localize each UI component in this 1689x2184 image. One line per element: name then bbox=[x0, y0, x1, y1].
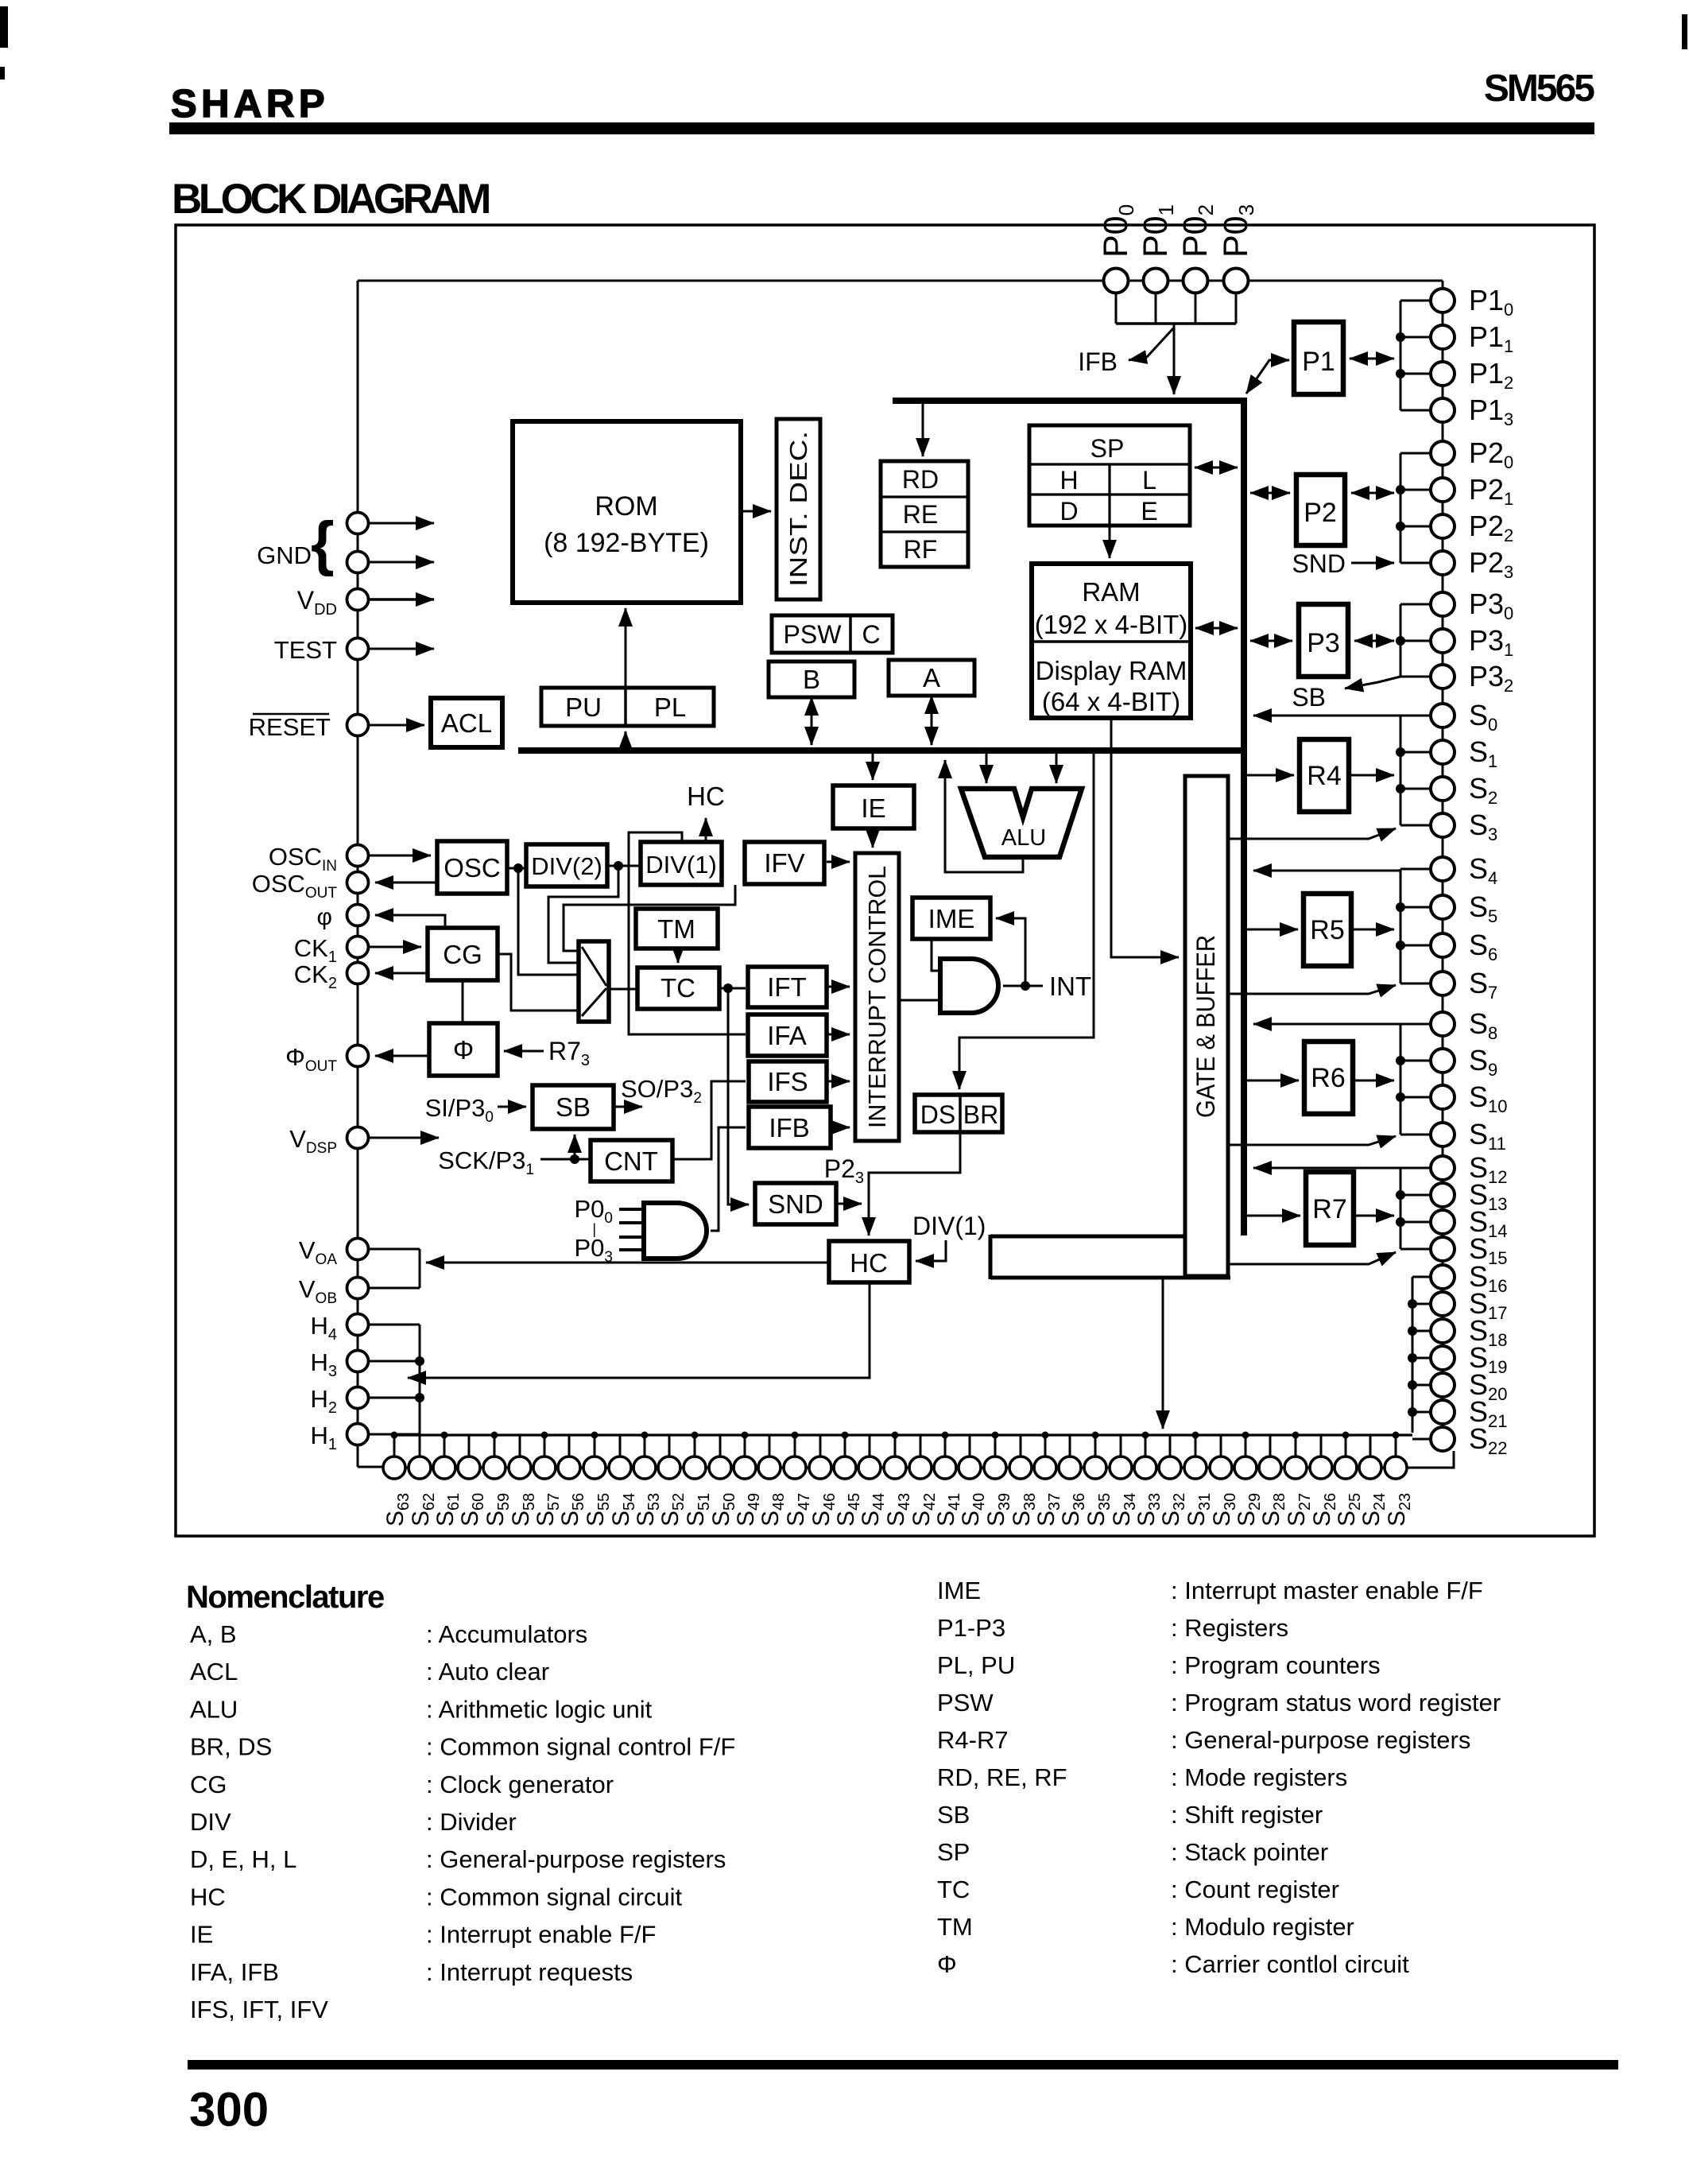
wire H2 stub bbox=[368, 1397, 420, 1399]
svg-text:PU: PU bbox=[565, 692, 602, 722]
wire SP to bus bbox=[1195, 467, 1238, 469]
svg-text:PL: PL bbox=[654, 692, 686, 722]
svg-text:TC: TC bbox=[660, 973, 695, 1003]
bus right thick vertical bbox=[1241, 398, 1247, 1236]
wire OSCin to OSC bbox=[369, 855, 431, 857]
pin P12 bbox=[1431, 362, 1455, 386]
wire P0 bar to IFB bbox=[1129, 328, 1174, 360]
svg-text:: Registers: : Registers bbox=[1171, 1614, 1288, 1642]
block CNT bbox=[591, 1140, 672, 1181]
pin VOB bbox=[347, 1278, 369, 1299]
wire VDD arrow bbox=[369, 598, 434, 601]
selector mux diag2 bbox=[582, 988, 606, 1016]
pin CK1 bbox=[347, 937, 369, 958]
wire INT gate out bbox=[1003, 985, 1043, 987]
svg-text:R6: R6 bbox=[1311, 1063, 1345, 1093]
pin S33 bbox=[1134, 1457, 1156, 1479]
wire stub S44 bbox=[869, 1435, 871, 1457]
wire stub S51 bbox=[694, 1435, 696, 1457]
junction P3 806 bbox=[1396, 636, 1405, 646]
wire SCK up to SB bbox=[574, 1135, 576, 1159]
register B bbox=[769, 661, 854, 697]
wire SP to RAM arrow bbox=[1109, 526, 1111, 558]
wire IF to IC y1301 bbox=[827, 1034, 850, 1036]
wire stub S40 bbox=[969, 1435, 971, 1457]
wire P0 gate input 0 bbox=[619, 1208, 644, 1211]
register R7 bbox=[1306, 1172, 1354, 1245]
pin S7 bbox=[1431, 972, 1455, 995]
wire stub S0_3 900 bbox=[1400, 715, 1431, 717]
wire bus to R5 bbox=[1247, 929, 1298, 931]
wire A to bus bbox=[931, 696, 933, 745]
pin S51 bbox=[684, 1457, 706, 1479]
wire stub S52 bbox=[668, 1435, 671, 1457]
wire GND2 arrow bbox=[369, 561, 434, 564]
wire stub S4_7 1093 bbox=[1400, 868, 1431, 871]
pin RESET bbox=[347, 715, 369, 736]
wire stub S58 bbox=[519, 1435, 521, 1457]
wire stub P3 760 bbox=[1400, 603, 1431, 606]
block IME bbox=[912, 898, 990, 939]
wire IC to INT gate bbox=[899, 999, 940, 1002]
pin S32 bbox=[1159, 1457, 1181, 1479]
register A bbox=[889, 660, 974, 696]
wire stub S54 bbox=[619, 1435, 622, 1457]
pin S42 bbox=[909, 1457, 932, 1479]
pin VDD bbox=[347, 589, 369, 611]
wire PHIout from PHI box bbox=[375, 1055, 429, 1057]
junction S16_22 1640 bbox=[1408, 1299, 1417, 1309]
svg-text:H: H bbox=[1059, 466, 1078, 495]
wire H3 stub bbox=[368, 1360, 420, 1363]
svg-text:L: L bbox=[1142, 466, 1156, 495]
divider DS/BR bbox=[959, 1095, 962, 1132]
svg-text:CG: CG bbox=[443, 940, 482, 969]
pin S19 bbox=[1431, 1346, 1455, 1370]
pin S46 bbox=[809, 1457, 831, 1479]
svg-text:: Interrupt requests: : Interrupt requests bbox=[426, 1958, 633, 1986]
pin OSCOUT bbox=[347, 872, 369, 894]
wire gate-buffer out y1055 bbox=[1228, 828, 1396, 839]
svg-text:GND: GND bbox=[257, 541, 312, 569]
wire stub P1 424 bbox=[1400, 336, 1431, 339]
wire stub S16_22 1606 bbox=[1412, 1276, 1431, 1278]
mode register table RD RE RF bbox=[881, 461, 968, 567]
header rule bbox=[169, 122, 1594, 134]
wire stub S16_22 1742 bbox=[1412, 1384, 1431, 1387]
svg-text:: Clock generator: : Clock generator bbox=[426, 1771, 614, 1798]
svg-text:SI/P30: SI/P30 bbox=[425, 1094, 494, 1126]
wire bracket S0_3 bbox=[1400, 716, 1402, 825]
pin S62 bbox=[409, 1457, 431, 1479]
pin S34 bbox=[1110, 1457, 1132, 1479]
divider RE/RF bbox=[881, 530, 968, 533]
pin S59 bbox=[483, 1457, 506, 1479]
svg-text:OSC: OSC bbox=[444, 853, 501, 883]
svg-text:: Common signal circuit: : Common signal circuit bbox=[426, 1883, 683, 1911]
svg-text:RD, RE, RF: RD, RE, RF bbox=[937, 1763, 1067, 1791]
wire R4 to pins bbox=[1349, 774, 1394, 777]
pin P32 bbox=[1431, 665, 1455, 689]
divider HL/DE bbox=[1029, 493, 1190, 495]
block SB bbox=[533, 1085, 614, 1129]
pin H1 bbox=[347, 1424, 369, 1445]
divider RAM/DisplayRAM bbox=[1032, 640, 1191, 643]
svg-text:SND: SND bbox=[768, 1189, 823, 1219]
junction P2 662 bbox=[1396, 522, 1405, 531]
svg-text:SO/P32: SO/P32 bbox=[621, 1075, 702, 1107]
wire stub S0_3 992 bbox=[1400, 788, 1431, 790]
svg-text:ACL: ACL bbox=[441, 708, 492, 738]
svg-text:Φ: Φ bbox=[937, 1950, 957, 1978]
svg-text:DIV(1): DIV(1) bbox=[645, 851, 717, 879]
pin S55 bbox=[583, 1457, 606, 1479]
junction S57 bbox=[541, 1432, 548, 1439]
pin P11 bbox=[1431, 325, 1455, 349]
wire P02 stub bbox=[1195, 293, 1197, 324]
wire bus to P2 bbox=[1250, 492, 1290, 495]
wire stub S39 bbox=[994, 1435, 997, 1457]
svg-text:IME: IME bbox=[937, 1577, 981, 1604]
svg-text:: Carrier contlol circuit: : Carrier contlol circuit bbox=[1171, 1950, 1409, 1978]
pin S41 bbox=[934, 1457, 956, 1479]
svg-text:: Interrupt enable F/F: : Interrupt enable F/F bbox=[426, 1921, 656, 1949]
wire stub S59 bbox=[494, 1435, 496, 1457]
junction S29 bbox=[1242, 1432, 1249, 1439]
wire DIV1 label to HC bbox=[916, 1240, 946, 1261]
pin P30 bbox=[1431, 592, 1455, 616]
wire R5 to pins bbox=[1351, 929, 1394, 931]
wire pins return to bus y900 bbox=[1253, 715, 1400, 717]
wire P3 to pins bbox=[1354, 640, 1394, 642]
pin P10 bbox=[1431, 289, 1455, 312]
pin S31 bbox=[1184, 1457, 1207, 1479]
pin S1 bbox=[1431, 740, 1455, 764]
junction S16_22 1674 bbox=[1408, 1326, 1417, 1336]
junction H3 bbox=[415, 1356, 424, 1366]
wire stub S0_3 1038 bbox=[1400, 824, 1431, 827]
junction TC out bbox=[723, 983, 733, 993]
svg-text:HC: HC bbox=[687, 782, 725, 811]
svg-text:: Mode registers: : Mode registers bbox=[1171, 1763, 1347, 1791]
pin S28 bbox=[1259, 1457, 1281, 1479]
svg-text:300: 300 bbox=[189, 2083, 269, 2136]
pin S4 bbox=[1431, 857, 1455, 881]
block INTERRUPT CONTROL bbox=[855, 853, 899, 1141]
pin S35 bbox=[1084, 1457, 1106, 1479]
pin P00 bbox=[1104, 269, 1129, 293]
wire stub S45 bbox=[844, 1435, 846, 1457]
svg-text:IE: IE bbox=[190, 1921, 213, 1949]
wire stub S60 bbox=[468, 1435, 471, 1457]
wire IME to INT gate bbox=[932, 939, 940, 971]
pin S50 bbox=[709, 1457, 731, 1479]
junction S0_3 992 bbox=[1396, 784, 1405, 793]
svg-text:INT: INT bbox=[1049, 972, 1091, 1001]
wire bracket P3 bbox=[1400, 604, 1402, 677]
junction SCK bbox=[570, 1154, 579, 1164]
block RAM bbox=[1032, 564, 1191, 718]
junction S55 bbox=[591, 1432, 599, 1439]
svg-text:IFA: IFA bbox=[767, 1021, 807, 1050]
wire OSC to DIV2 bbox=[507, 867, 526, 870]
junction S8_11 1334 bbox=[1396, 1056, 1405, 1065]
wire stub S61 bbox=[444, 1435, 446, 1457]
svg-text:ACL: ACL bbox=[190, 1658, 238, 1686]
wire stub S42 bbox=[920, 1435, 922, 1457]
svg-text:IE: IE bbox=[861, 793, 885, 823]
svg-text:TM: TM bbox=[657, 914, 695, 944]
svg-text:PSW: PSW bbox=[937, 1689, 994, 1717]
wire TC to IFT bbox=[719, 987, 746, 990]
wire P1 to pins bbox=[1350, 358, 1394, 360]
wire bus corner to P1 bbox=[1246, 360, 1289, 394]
svg-text:HC: HC bbox=[190, 1883, 226, 1911]
wire stub S30 bbox=[1220, 1435, 1222, 1457]
wire PUPL to ROM arrow low bbox=[625, 731, 627, 748]
junction P1 470 bbox=[1396, 369, 1405, 378]
wire DSBR to HC bbox=[869, 1132, 960, 1236]
pin P22 bbox=[1431, 514, 1455, 538]
wire PUPL to ROM arrow high bbox=[625, 608, 627, 688]
wire stub S23 bbox=[1395, 1435, 1397, 1457]
block ACL bbox=[431, 698, 502, 747]
register R6 bbox=[1304, 1042, 1353, 1114]
divider PSW/C bbox=[849, 615, 852, 653]
junction S4_7 1141 bbox=[1396, 902, 1405, 912]
wire bracket S12_15 bbox=[1400, 1168, 1402, 1249]
wire bracket S4_7 bbox=[1400, 869, 1402, 983]
junction OSC out bbox=[513, 863, 523, 873]
pin P02 bbox=[1183, 269, 1208, 293]
wire DIV1 bottom to mux top bbox=[564, 885, 735, 951]
wire IE to interrupt control bbox=[872, 828, 874, 848]
wire H1 stub bbox=[368, 1433, 420, 1436]
wire ROM to INST DEC bbox=[741, 510, 771, 513]
pin P23 bbox=[1431, 551, 1455, 575]
pin S54 bbox=[609, 1457, 631, 1479]
wire bus to R6 bbox=[1247, 1080, 1299, 1082]
wire stub S16_22 1810 bbox=[1412, 1438, 1431, 1441]
pin S23 bbox=[1385, 1457, 1407, 1479]
pin S0 bbox=[1431, 704, 1455, 727]
register PSW C bbox=[772, 615, 893, 653]
pin OSCIN bbox=[347, 845, 369, 867]
wire stub S56 bbox=[568, 1435, 571, 1457]
svg-text:E: E bbox=[1141, 497, 1157, 526]
svg-text:SP: SP bbox=[1090, 434, 1125, 463]
pin S18 bbox=[1431, 1319, 1455, 1343]
svg-text:: Modulo register: : Modulo register bbox=[1171, 1913, 1354, 1941]
wire IF to IC y1241 bbox=[827, 986, 850, 988]
register DS BR bbox=[915, 1095, 1002, 1132]
wire DIV2 to DIV1 bbox=[607, 865, 641, 867]
wire stub S48 bbox=[769, 1435, 771, 1457]
junction S27 bbox=[1292, 1432, 1300, 1439]
wire GND1 arrow bbox=[369, 522, 434, 525]
block IFB bbox=[749, 1107, 831, 1148]
wire VOA stub bbox=[368, 1248, 420, 1251]
wire bracket S16_22 bbox=[1412, 1277, 1414, 1433]
pin P20 bbox=[1431, 441, 1455, 465]
block INST. DEC. bbox=[777, 419, 820, 599]
wire VOB stub bbox=[368, 1287, 420, 1290]
svg-text:IFS, IFT, IFV: IFS, IFT, IFV bbox=[190, 1996, 328, 2023]
svg-text:: General-purpose registers: : General-purpose registers bbox=[426, 1845, 726, 1873]
pin P21 bbox=[1431, 478, 1455, 502]
wire stub P1 378 bbox=[1400, 300, 1431, 302]
wire RAM to bus bbox=[1195, 627, 1238, 630]
svg-text:Φ: Φ bbox=[453, 1035, 474, 1065]
wire IF to IC y1418 bbox=[827, 1127, 850, 1129]
wire bus to DS-BR bbox=[959, 754, 1094, 1089]
wire bus to ALU in1 bbox=[986, 754, 988, 783]
pin S60 bbox=[458, 1457, 480, 1479]
block TC bbox=[637, 968, 719, 1009]
wire phi from CG bbox=[375, 915, 445, 928]
pin H3 bbox=[347, 1351, 369, 1372]
wire P0 chain bbox=[1103, 280, 1249, 282]
svg-text:SHARP: SHARP bbox=[171, 83, 329, 126]
wire H bracket bbox=[419, 1325, 421, 1434]
junction S63 bbox=[391, 1432, 398, 1439]
divider PU/PL bbox=[624, 688, 627, 726]
wire mux to TC bbox=[609, 988, 637, 991]
wire stub S0_3 946 bbox=[1400, 751, 1431, 754]
wire stub S49 bbox=[744, 1435, 746, 1457]
pin S43 bbox=[884, 1457, 906, 1479]
wire P00 stub bbox=[1115, 293, 1118, 324]
wire stub S27 bbox=[1295, 1435, 1297, 1457]
pin P31 bbox=[1431, 629, 1455, 653]
wire bracket P2 bbox=[1400, 453, 1402, 563]
svg-text:RD: RD bbox=[902, 465, 939, 494]
svg-text:IFB: IFB bbox=[1078, 347, 1118, 376]
block ALU bbox=[961, 789, 1082, 857]
wire SCK to CNT bbox=[540, 1158, 591, 1161]
svg-text:INST. DEC.: INST. DEC. bbox=[784, 431, 812, 587]
wire RESET to ACL bbox=[369, 724, 424, 727]
block DIV(1) bbox=[641, 842, 722, 885]
wire ALU out to bus bbox=[945, 760, 1023, 872]
svg-text:RF: RF bbox=[904, 535, 938, 564]
wire bus to ALU in2 bbox=[1056, 754, 1058, 783]
wire stub S12_15 1537 bbox=[1400, 1221, 1431, 1224]
bus mid thick bbox=[518, 747, 1247, 754]
wire DIV2 to IFA bbox=[629, 905, 746, 1034]
wire top inner rail bbox=[358, 280, 1443, 282]
divider SP/HL bbox=[1029, 463, 1190, 465]
wire stub P2 616 bbox=[1400, 489, 1431, 491]
svg-text:ROM: ROM bbox=[595, 491, 657, 522]
pin S37 bbox=[1034, 1457, 1056, 1479]
wire bottom chain bbox=[383, 1467, 1407, 1469]
svg-text:CNT: CNT bbox=[604, 1146, 658, 1176]
wire bus to R7 bbox=[1247, 1215, 1300, 1217]
svg-text:ALU: ALU bbox=[1001, 825, 1046, 851]
scan artifact left edge bbox=[0, 6, 8, 48]
wire stub S16_22 1776 bbox=[1412, 1411, 1431, 1414]
svg-text:HC: HC bbox=[850, 1248, 888, 1278]
wire stub S38 bbox=[1020, 1435, 1022, 1457]
wire SB to SO bbox=[614, 1106, 642, 1108]
wire stub S46 bbox=[819, 1435, 822, 1457]
pin S44 bbox=[858, 1457, 881, 1479]
junction S41 bbox=[942, 1432, 949, 1439]
pin S9 bbox=[1431, 1049, 1455, 1073]
svg-text:: Count register: : Count register bbox=[1171, 1876, 1339, 1903]
block DIV(2) bbox=[526, 844, 607, 886]
svg-text:INTERRUPT CONTROL: INTERRUPT CONTROL bbox=[863, 866, 891, 1128]
junction S51 bbox=[691, 1432, 699, 1439]
wire gate-buffer bottom top seg bbox=[990, 1235, 1185, 1239]
wire CNT to IFS bbox=[672, 1081, 746, 1159]
label RESET overline bbox=[253, 713, 329, 716]
svg-text:R4: R4 bbox=[1307, 761, 1341, 791]
gate AND INT bbox=[940, 959, 998, 1013]
wire stub S12_15 1469 bbox=[1400, 1167, 1431, 1170]
scan artifact right edge bbox=[1682, 14, 1687, 49]
pin P13 bbox=[1431, 398, 1455, 422]
stack pointer table SP bbox=[1029, 425, 1190, 526]
pin S15 bbox=[1431, 1237, 1455, 1261]
svg-text:DIV: DIV bbox=[190, 1808, 231, 1836]
pin S12 bbox=[1431, 1156, 1455, 1180]
svg-text:P1-P3: P1-P3 bbox=[937, 1614, 1005, 1642]
junction S4_7 1189 bbox=[1396, 941, 1405, 950]
wire stub S16_22 1640 bbox=[1412, 1303, 1431, 1305]
bus top thick bbox=[893, 398, 1247, 404]
pin S20 bbox=[1431, 1373, 1455, 1397]
svg-text:SB: SB bbox=[1292, 683, 1326, 712]
block IE bbox=[833, 786, 914, 828]
wire stub P2 708 bbox=[1400, 562, 1431, 564]
pin S56 bbox=[558, 1457, 580, 1479]
junction S59 bbox=[491, 1432, 498, 1439]
wire pins return to bus y1095 bbox=[1253, 870, 1400, 872]
svg-text:{: { bbox=[311, 510, 335, 577]
wire bus down to RD bbox=[922, 404, 924, 456]
wire stub S62 bbox=[419, 1435, 421, 1457]
pin VOA bbox=[347, 1239, 369, 1260]
pin S11 bbox=[1431, 1123, 1455, 1146]
junction S12_15 1537 bbox=[1396, 1217, 1405, 1227]
wire bracket P1 bbox=[1400, 301, 1402, 410]
junction S0_3 946 bbox=[1396, 747, 1405, 757]
gate AND P0 bbox=[644, 1203, 707, 1259]
wire stub S12_15 1571 bbox=[1400, 1248, 1431, 1251]
pin P01 bbox=[1144, 269, 1168, 293]
wire stub S33 bbox=[1145, 1435, 1147, 1457]
wire P0 collector bar bbox=[1116, 322, 1236, 325]
junction S37 bbox=[1042, 1432, 1049, 1439]
pin S29 bbox=[1234, 1457, 1257, 1479]
wire gate-buffer to S bus arrow bbox=[1162, 1278, 1164, 1429]
svg-text:SCK/P31: SCK/P31 bbox=[438, 1146, 534, 1178]
svg-text:TEST: TEST bbox=[274, 636, 337, 664]
pin S47 bbox=[784, 1457, 806, 1479]
pin S16 bbox=[1431, 1265, 1455, 1289]
svg-text:IFS: IFS bbox=[767, 1067, 808, 1096]
scan artifact left edge 2 bbox=[0, 67, 5, 80]
pin S45 bbox=[834, 1457, 856, 1479]
pin S39 bbox=[984, 1457, 1006, 1479]
junction S61 bbox=[441, 1432, 448, 1439]
pin S27 bbox=[1284, 1457, 1307, 1479]
wire right pin rail bbox=[1442, 281, 1444, 1439]
wire P0 gate input 1 bbox=[619, 1221, 644, 1224]
svg-text:: Shift register: : Shift register bbox=[1171, 1801, 1323, 1829]
